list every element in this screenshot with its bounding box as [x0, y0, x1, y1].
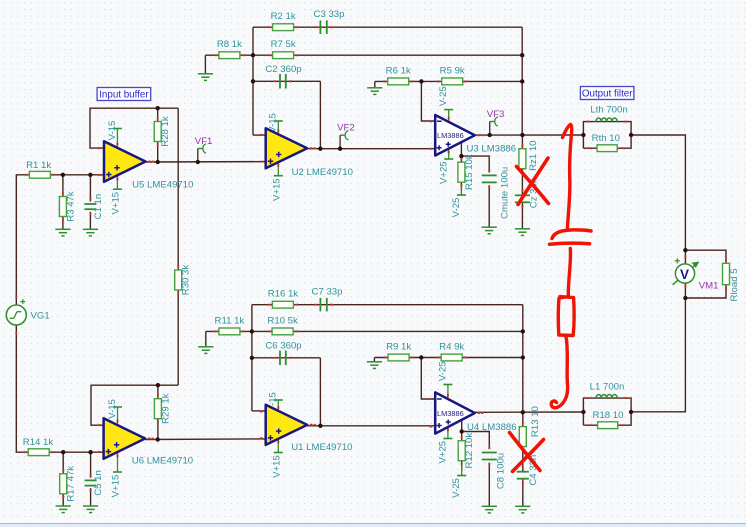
svg-text:R16 1k: R16 1k	[268, 289, 299, 300]
red cross over Cz	[517, 158, 549, 205]
ground	[83, 229, 98, 236]
svg-text:U6 LME49710: U6 LME49710	[132, 456, 193, 467]
red annotation wire upper	[563, 125, 572, 229]
wire R11 R10 row	[206, 330, 523, 332]
wire left feedback column bottom x252	[251, 305, 253, 411]
power pin V+25	[438, 426, 453, 463]
svg-text:Input buffer: Input buffer	[99, 90, 149, 101]
op-amp U1	[260, 405, 353, 453]
resistor R4	[437, 342, 467, 361]
wire VM to bottom filter	[631, 298, 685, 412]
capacitor C4	[517, 455, 539, 486]
svg-text:U2 LME49710: U2 LME49710	[292, 167, 353, 178]
resistor R15	[458, 154, 475, 190]
inductor Lth	[587, 104, 628, 121]
power amp U4	[429, 392, 516, 433]
power pin V+15	[271, 438, 283, 477]
svg-text:VM1: VM1	[699, 281, 719, 292]
ground	[83, 506, 98, 513]
svg-text:R14 1k: R14 1k	[23, 437, 54, 448]
svg-text:R3 47k: R3 47k	[65, 191, 76, 222]
op-amp U5	[98, 141, 193, 190]
inductor L1	[587, 381, 628, 398]
label Input buffer	[97, 88, 151, 101]
wire mute RC node bottom	[462, 432, 490, 450]
wire U6 feedback loop	[91, 385, 178, 425]
ground	[515, 229, 530, 236]
wire U3 inverting feed	[421, 81, 435, 121]
svg-text:R30 3k: R30 3k	[181, 265, 192, 296]
svg-text:Rload 5: Rload 5	[729, 268, 740, 301]
ground	[198, 74, 213, 81]
resistor Rload	[723, 259, 740, 302]
power pin V-15	[107, 121, 122, 148]
wire U3 output row	[475, 134, 584, 136]
resistor R30	[175, 265, 192, 296]
wire Cmute to ground	[488, 185, 490, 227]
power pin V+15	[111, 452, 123, 497]
red annotation wire middle	[568, 249, 570, 296]
resistor Rth	[589, 133, 625, 151]
wire C2 row	[253, 80, 320, 82]
svg-text:C1 1n: C1 1n	[93, 194, 104, 220]
wire R6 ground stub	[374, 81, 376, 87]
resistor R6	[383, 65, 413, 84]
wire U5 output row	[144, 161, 266, 163]
svg-text:V+15: V+15	[271, 178, 282, 201]
resistor R29	[154, 393, 171, 424]
ground	[56, 506, 71, 513]
svg-text:V+15: V+15	[110, 192, 121, 215]
wire R29 pins	[157, 385, 159, 399]
wire R3 branch	[62, 175, 64, 196]
wire top compensation row R2 C3	[253, 26, 522, 28]
wire U4 output row	[475, 411, 584, 413]
capacitor Cmute	[482, 167, 511, 219]
capacitor C7	[312, 287, 343, 312]
svg-text:C6 360p: C6 360p	[265, 340, 301, 351]
svg-text:R4 9k: R4 9k	[439, 342, 464, 353]
ground	[515, 506, 530, 513]
window bottom edge	[0, 524, 746, 527]
wire VG1 to R14 row	[16, 325, 103, 452]
op-amp U2	[260, 128, 353, 178]
svg-text:Rz1 10: Rz1 10	[528, 140, 539, 170]
capacitor C5	[85, 470, 105, 496]
wire right column x523 bottom	[522, 305, 524, 413]
svg-text:R6 1k: R6 1k	[386, 65, 411, 76]
red annotation resistor box	[558, 297, 574, 336]
wire R28 pins	[157, 108, 159, 121]
svg-text:R15 10k: R15 10k	[464, 154, 475, 190]
svg-text:Output filter: Output filter	[582, 89, 633, 100]
resistor R7	[268, 39, 298, 58]
power pin V-15	[268, 113, 283, 135]
svg-text:V+25: V+25	[438, 441, 449, 464]
op-amp U6	[98, 418, 193, 466]
capacitor Cz	[515, 178, 540, 209]
svg-text:R29 1k: R29 1k	[160, 393, 171, 424]
svg-text:V+15: V+15	[111, 475, 122, 498]
svg-text:R12 10k: R12 10k	[464, 433, 475, 469]
wire R1 input row	[16, 174, 104, 176]
svg-text:VF1: VF1	[195, 136, 213, 147]
wire C8 to ground	[488, 463, 490, 506]
ground	[367, 362, 382, 369]
ground	[482, 227, 497, 234]
voltage pin VF3	[487, 109, 505, 135]
svg-text:Lth 700n: Lth 700n	[590, 104, 627, 115]
svg-text:R5 9k: R5 9k	[440, 65, 465, 76]
svg-text:VF2: VF2	[337, 123, 355, 134]
wire left input column to VG1	[15, 174, 17, 305]
resistor R12	[458, 433, 475, 469]
wire U4 mute pin	[461, 420, 463, 432]
power pin V-15	[107, 399, 122, 425]
wire Rload loop	[685, 250, 726, 263]
svg-text:V-25: V-25	[438, 361, 449, 381]
ground	[367, 88, 382, 95]
svg-text:C7 33p: C7 33p	[312, 287, 343, 298]
wire VM1 pins	[684, 250, 686, 264]
svg-text:R1 1k: R1 1k	[26, 160, 51, 171]
power pin V+25	[439, 149, 454, 184]
svg-text:R10 5k: R10 5k	[267, 315, 298, 326]
wire U1 inverting input	[252, 410, 266, 412]
svg-text:V-25: V-25	[451, 478, 462, 498]
ground	[55, 229, 70, 236]
svg-text:C3 33p: C3 33p	[314, 9, 345, 20]
red annotation capacitor plates	[550, 230, 592, 244]
resistor R17	[60, 466, 77, 502]
source VG1	[6, 295, 49, 334]
svg-text:R9 1k: R9 1k	[386, 342, 411, 353]
power pin V-25 mute bottom	[451, 464, 466, 498]
wire C6 row	[252, 357, 321, 359]
svg-text:R7 5k: R7 5k	[271, 39, 296, 50]
wire C2 to U2 output column	[319, 81, 321, 148]
svg-text:V-15: V-15	[107, 121, 118, 141]
svg-text:R11 1k: R11 1k	[215, 315, 245, 326]
capacitor C2	[265, 64, 301, 89]
wire R17 branch	[62, 452, 64, 473]
wire mute RC node	[461, 156, 489, 172]
svg-text:R13 10: R13 10	[530, 406, 541, 437]
wire C6 to U1 output column	[319, 358, 321, 426]
svg-text:U5 LME49710: U5 LME49710	[132, 180, 193, 191]
voltage pin VF1	[195, 136, 213, 162]
wire C5 branch	[90, 452, 92, 478]
power pin V-15	[268, 392, 283, 412]
svg-text:V-15: V-15	[107, 399, 118, 419]
red annotation wire lower	[551, 337, 567, 408]
resistor R18	[589, 410, 625, 429]
wire U5 feedback loop	[90, 108, 178, 148]
svg-text:LM3886: LM3886	[437, 131, 464, 140]
resistor R14	[23, 437, 54, 456]
svg-text:Rth 10: Rth 10	[592, 133, 620, 144]
resistor R3	[59, 191, 76, 222]
ground	[482, 506, 497, 513]
ground	[198, 347, 213, 354]
resistor R11	[214, 315, 244, 334]
svg-text:R17 47k: R17 47k	[66, 466, 77, 502]
resistor R2	[268, 11, 298, 30]
wire R11 ground stub	[205, 331, 207, 346]
svg-text:VG1: VG1	[31, 311, 50, 322]
wire U1 output row to U4	[307, 425, 435, 427]
svg-text:R2 1k: R2 1k	[271, 11, 296, 22]
power pin V-25	[438, 361, 453, 399]
resistor R13	[519, 406, 541, 451]
power pin V+15	[271, 162, 283, 201]
capacitor C1	[84, 194, 104, 220]
power pin V-25	[438, 86, 453, 122]
wire Rz1 chain	[521, 135, 523, 149]
label Output filter	[580, 87, 634, 100]
svg-text:LM3886: LM3886	[437, 409, 464, 418]
svg-text:C5 1n: C5 1n	[93, 470, 104, 496]
resistor R8	[214, 39, 244, 58]
wire C1 branch	[89, 175, 91, 202]
wire U4 inverting feed	[421, 358, 435, 400]
power pin V+15	[110, 175, 122, 214]
power pin V-25 mute	[451, 185, 466, 217]
resistor R10	[267, 315, 298, 334]
wire R13 chain	[522, 412, 524, 427]
red cross over C4	[510, 433, 544, 472]
wire U3 mute pin	[460, 142, 462, 156]
power amp U3	[429, 115, 516, 156]
voltage pin VF2	[337, 123, 355, 149]
wire R30 column	[177, 108, 179, 270]
svg-text:L1 700n: L1 700n	[590, 381, 625, 392]
wire left feedback column x253	[252, 27, 254, 135]
capacitor C3	[314, 9, 345, 34]
wire U2 output row to U3	[306, 148, 435, 150]
resistor R1	[25, 160, 55, 178]
wire R6 R5 row	[375, 80, 522, 82]
wire R15 pins	[460, 156, 462, 162]
wire R8 ground stub	[204, 55, 206, 73]
svg-text:V: V	[680, 267, 689, 282]
resistor R16	[268, 289, 299, 308]
svg-text:U3 LM3886: U3 LM3886	[467, 144, 517, 155]
wire R12 pins	[461, 432, 463, 441]
resistor R28	[154, 116, 171, 147]
wire U6 output row	[145, 438, 265, 441]
wire filter to VM column	[631, 135, 685, 250]
svg-text:R8 1k: R8 1k	[217, 39, 242, 50]
svg-text:C2 360p: C2 360p	[265, 64, 301, 75]
capacitor C8	[482, 446, 507, 489]
svg-text:V+25: V+25	[439, 161, 450, 184]
svg-text:Cmute 100u: Cmute 100u	[500, 167, 511, 219]
resistor R9	[384, 342, 414, 361]
wire R9 ground stub	[373, 358, 375, 362]
resistor Rz1	[519, 140, 539, 173]
wire right column x522 top	[521, 27, 523, 135]
wire bottom compensation row R16 C7	[252, 304, 523, 306]
svg-text:V+15: V+15	[271, 455, 282, 478]
svg-text:V-25: V-25	[438, 86, 449, 106]
svg-text:R18 10: R18 10	[593, 410, 624, 421]
wire output filter frame	[583, 122, 631, 149]
wire U2 inverting input	[253, 134, 266, 136]
svg-text:V-25: V-25	[451, 198, 462, 218]
svg-text:R28 1k: R28 1k	[160, 116, 171, 147]
svg-text:C8 100u: C8 100u	[496, 453, 507, 489]
wire R8 R7 row	[205, 54, 522, 56]
svg-text:U1 LME49710: U1 LME49710	[291, 442, 352, 453]
capacitor C6	[265, 340, 301, 365]
svg-text:VF3: VF3	[487, 109, 505, 120]
resistor R5	[437, 65, 467, 84]
wire R9 R4 row	[374, 357, 522, 359]
voltmeter VM1	[673, 255, 719, 291]
wire bottom filter frame	[583, 398, 631, 425]
